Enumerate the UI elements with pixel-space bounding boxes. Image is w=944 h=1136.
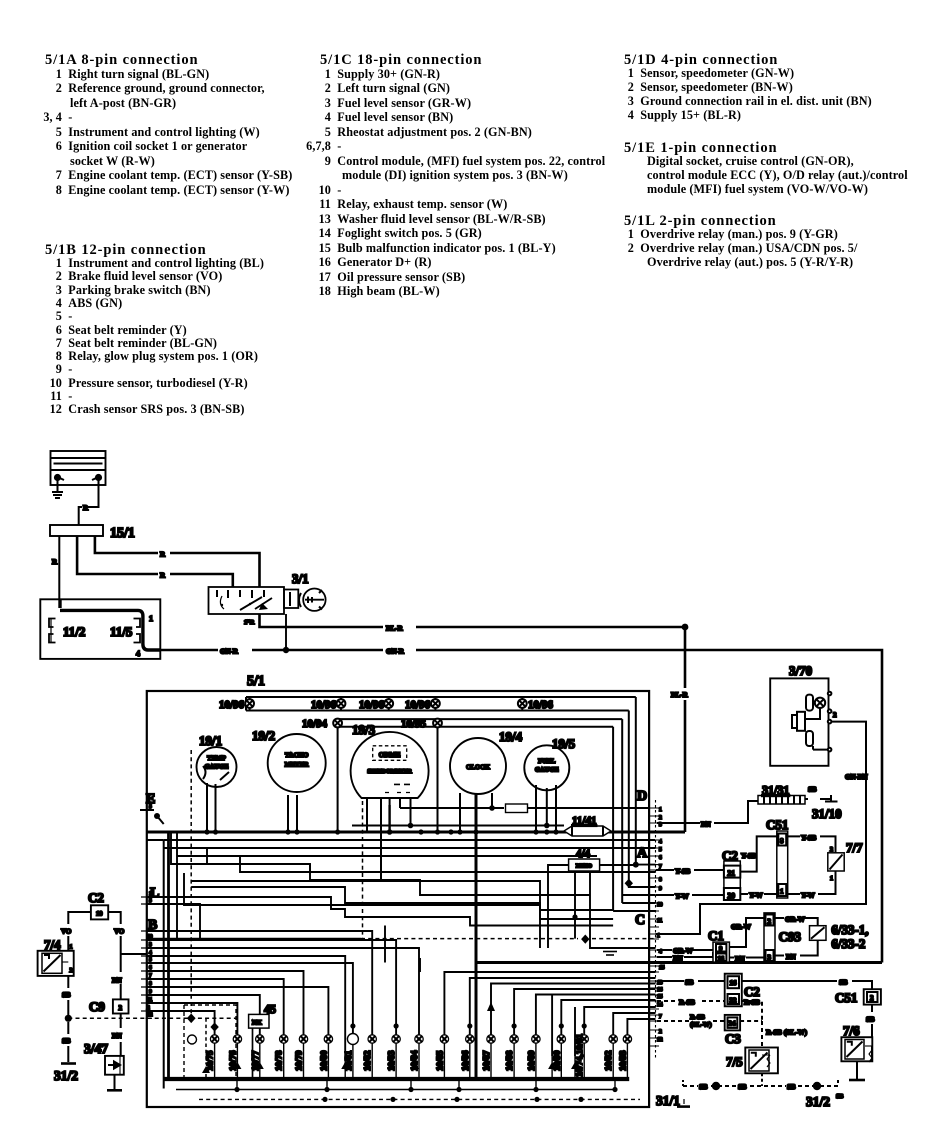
svg-text:2: 2 (70, 968, 73, 974)
junction dot rheo (572, 914, 577, 919)
svg-text:GN-R: GN-R (386, 648, 405, 656)
small dial symbol (188, 1035, 197, 1044)
svg-text:FUEL: FUEL (538, 758, 556, 765)
wire 7/6 ground (857, 1046, 872, 1080)
svg-text:BN: BN (701, 821, 711, 829)
svg-text:C51: C51 (835, 990, 857, 1005)
pin stubs left edge (141, 810, 152, 1018)
svg-text:16: 16 (657, 987, 663, 993)
lamp rail 10/94 10/95 (338, 719, 623, 727)
svg-text:8: 8 (659, 877, 662, 883)
battery 6/1 (51, 451, 106, 485)
wire VO right (108, 912, 147, 999)
svg-text:SB: SB (62, 1037, 71, 1045)
svg-text:NK: NK (252, 1020, 262, 1027)
solenoid 6/33 (810, 926, 827, 941)
svg-text:8: 8 (780, 837, 784, 845)
svg-text:10/93: 10/93 (617, 1050, 627, 1071)
wire Y-SB C51 to 7/7 (788, 836, 836, 852)
svg-text:SB: SB (839, 979, 848, 987)
svg-text:10/92: 10/92 (603, 1050, 613, 1071)
svg-text:C: C (635, 913, 645, 928)
svg-text:BL-R: BL-R (671, 691, 689, 699)
connector C3 pin 24 (725, 1015, 740, 1031)
svg-text:12: 12 (657, 1037, 663, 1043)
svg-text:10/78: 10/78 (274, 1050, 284, 1071)
svg-text:Y-SB: Y-SB (741, 852, 757, 860)
svg-text:SB: SB (808, 786, 817, 794)
svg-text:10: 10 (96, 911, 103, 918)
pin column right edge (650, 800, 659, 1058)
dashed R-SB to 7/5 (740, 1001, 762, 1048)
svg-text:3/70: 3/70 (789, 663, 812, 678)
svg-text:C2: C2 (744, 984, 760, 999)
svg-text:1: 1 (657, 933, 660, 939)
wire BN to C1 (657, 952, 713, 957)
svg-text:7/5: 7/5 (726, 1054, 743, 1069)
svg-text:SB: SB (866, 1016, 875, 1024)
svg-text:BN: BN (786, 953, 796, 961)
svg-text:10/87: 10/87 (481, 1050, 491, 1071)
svg-text:5: 5 (659, 847, 662, 853)
ground bottom left (107, 1089, 122, 1092)
wire GR-W to C1 (657, 949, 713, 951)
NK stub (252, 1028, 254, 1079)
dashed wire mid (147, 938, 361, 940)
dashed SB ground line (683, 1080, 838, 1086)
wires mesh middle band (147, 832, 656, 1079)
wire BN C1 to C93 (729, 957, 764, 959)
diamond above lamp 10/75 (210, 1022, 218, 1031)
svg-text:2: 2 (119, 1004, 123, 1012)
svg-text:R-SB: R-SB (679, 999, 695, 1007)
svg-text:ODME: ODME (379, 751, 401, 759)
svg-text:R: R (160, 551, 166, 559)
svg-text:4: 4 (659, 949, 662, 955)
svg-text:VO: VO (114, 928, 125, 936)
svg-text:1: 1 (780, 888, 784, 896)
svg-text:10/89: 10/89 (526, 1050, 536, 1071)
ground at battery (52, 480, 63, 498)
svg-text:(BL-W): (BL-W) (690, 1022, 712, 1029)
svg-text:C51: C51 (766, 817, 788, 832)
svg-text:R-SB: R-SB (744, 999, 760, 1007)
main bus BN thick (147, 831, 685, 834)
svg-text:C1: C1 (708, 928, 724, 943)
overdrive relay 7/7 (828, 853, 844, 871)
wire SB to C51 (742, 981, 872, 989)
svg-text:6/33-2: 6/33-2 (831, 936, 865, 951)
diag socket NK (249, 1014, 269, 1028)
svg-text:TEMP: TEMP (207, 755, 226, 762)
ground 7/6 (849, 1079, 865, 1082)
svg-text:10/95: 10/95 (401, 718, 427, 730)
svg-text:Y-W: Y-W (801, 892, 815, 900)
wire Y-SB C2 to C51 (740, 836, 777, 871)
svg-text:3: 3 (768, 954, 772, 962)
svg-text:4: 4 (659, 839, 662, 845)
hazard switch 3/70 (770, 678, 831, 765)
wire BL-R down to bus (684, 627, 687, 832)
bottom lamp row (210, 1034, 631, 1045)
brake warning sensor 7/5 (745, 1048, 778, 1074)
svg-text:3: 3 (659, 822, 662, 828)
dashed R-SB from pins (657, 1000, 725, 1002)
svg-text:10/79: 10/79 (294, 1050, 304, 1071)
svg-text:15: 15 (659, 965, 665, 971)
svg-text:7: 7 (659, 1014, 662, 1020)
svg-text:19/4: 19/4 (499, 729, 523, 744)
svg-text:R: R (52, 558, 58, 566)
svg-text:METER: METER (285, 762, 309, 769)
svg-text:10/82: 10/82 (362, 1050, 372, 1071)
svg-text:Y-W: Y-W (749, 892, 763, 900)
svg-text:20: 20 (728, 891, 736, 900)
lamp labels rotated (205, 1033, 628, 1077)
srs lamp arrow (487, 1002, 495, 1011)
wire Y-W C2 to C51 (740, 893, 777, 895)
wire R 15/1 to switch pin b (95, 536, 260, 587)
wire R 15/1 to switch pin a (77, 536, 233, 587)
svg-text:31/10: 31/10 (812, 806, 842, 821)
svg-text:10/96: 10/96 (311, 699, 337, 711)
svg-text:TACHO: TACHO (285, 752, 308, 759)
junction dots above lamps (350, 1023, 587, 1028)
ground 31/1 (677, 1105, 690, 1108)
connector box 11/2 11/5 (40, 599, 160, 659)
svg-text:10/80: 10/80 (318, 1050, 328, 1071)
svg-text:10/88: 10/88 (504, 1050, 514, 1071)
bus second conductor (164, 840, 655, 1089)
dashed return line (199, 1098, 640, 1100)
diamond junction A (625, 879, 633, 888)
svg-text:SB: SB (738, 1083, 747, 1091)
pin E (140, 810, 164, 824)
svg-text:R-SB (BL-W): R-SB (BL-W) (766, 1029, 808, 1037)
legend column 1 (45, 52, 198, 69)
svg-text:1: 1 (70, 945, 73, 951)
svg-text:31/1: 31/1 (656, 1093, 680, 1108)
svg-text:31/2: 31/2 (806, 1094, 830, 1109)
svg-text:SB: SB (685, 979, 694, 987)
svg-text:GN-R: GN-R (220, 648, 239, 656)
svg-text:7/4: 7/4 (44, 937, 61, 952)
svg-text:1: 1 (659, 807, 662, 813)
component 11/41 (564, 826, 611, 836)
svg-text:7/6: 7/6 (843, 1023, 860, 1038)
connector C93 (764, 913, 775, 962)
svg-text:10/96: 10/96 (219, 699, 245, 711)
diodes lamps 2 3 (233, 1062, 241, 1069)
svg-text:10/94: 10/94 (302, 718, 328, 730)
wire R battery to 15/1 (79, 480, 99, 525)
connector C2 pins 16 32 (725, 974, 742, 1007)
svg-text:R: R (160, 572, 166, 580)
rheostat 4/4 (569, 859, 600, 871)
junction dots on bus (204, 805, 558, 835)
pin numbers left (147, 804, 153, 1018)
svg-text:2: 2 (659, 815, 662, 821)
wire VO left (68, 912, 91, 951)
connector C51 (777, 831, 788, 898)
lamp 10/95 (433, 719, 442, 728)
ground 31/10 (825, 795, 838, 802)
svg-text:3/1: 3/1 (292, 571, 309, 586)
svg-text:5/1: 5/1 (247, 674, 265, 689)
svg-text:24: 24 (729, 1020, 737, 1028)
gauge pin wires (207, 728, 564, 881)
legend column 3 (624, 52, 778, 69)
bulb rail top (246, 697, 636, 711)
svg-text:11/2: 11/2 (63, 624, 85, 639)
svg-text:C93: C93 (779, 929, 802, 944)
svg-text:7: 7 (659, 864, 662, 870)
svg-text:VO: VO (61, 928, 72, 936)
wire SB to ground (67, 976, 69, 1062)
svg-text:GR-W: GR-W (785, 916, 805, 924)
svg-text:GAUGE: GAUGE (205, 764, 229, 771)
key symbol (299, 589, 326, 611)
ground connector 3/47 (105, 1056, 124, 1075)
connector C2 pins 21 20 (724, 861, 740, 900)
svg-text:CLOCK: CLOCK (466, 764, 490, 771)
svg-text:SPEEDOMETER: SPEEDOMETER (367, 769, 412, 775)
svg-text:Y-W: Y-W (675, 893, 689, 901)
labels 10/96 (219, 699, 554, 711)
thick supply horizontal (476, 961, 882, 964)
lamps 10/96 (245, 697, 526, 710)
wire SB to 31/10 (805, 799, 831, 801)
svg-text:1: 1 (149, 614, 153, 623)
svg-text:32: 32 (730, 997, 738, 1005)
wire Y-W C51 to 7/7 (788, 871, 836, 894)
wire to ground (114, 1075, 116, 1091)
svg-text:10/96: 10/96 (405, 699, 431, 711)
fuse box 15/1 (50, 525, 103, 536)
wire Y-SB to C2 (656, 869, 724, 871)
svg-text:11/41: 11/41 (572, 815, 596, 827)
pin numbers right (657, 807, 665, 1043)
svg-text:3/47: 3/47 (84, 1041, 108, 1056)
svg-text:GAUGE: GAUGE (535, 767, 559, 774)
svg-text:12: 12 (147, 1012, 153, 1018)
svg-text:2: 2 (870, 994, 874, 1002)
svg-text:31/2: 31/2 (54, 1068, 78, 1083)
svg-text:19/3: 19/3 (352, 722, 376, 737)
wire Y-W to C2 (656, 894, 724, 896)
dashed link wire (68, 1017, 241, 1019)
svg-text:21: 21 (728, 869, 736, 878)
nested corner wires top right (613, 697, 636, 911)
svg-text:31/31: 31/31 (762, 783, 789, 797)
legend column 2 (320, 52, 482, 69)
svg-text:19/1: 19/1 (199, 733, 222, 748)
speedometer 19/3 (351, 732, 429, 805)
wire BN to 3/47 (120, 1014, 122, 1056)
wire GN-R to right edge (160, 614, 882, 963)
svg-text:5: 5 (149, 804, 152, 810)
svg-text:SB: SB (699, 1083, 708, 1091)
thick supply wire from clock (475, 794, 478, 1079)
junction dot A (633, 862, 639, 868)
clock 19/4 (450, 738, 506, 794)
svg-text:10/86: 10/86 (460, 1050, 470, 1071)
svg-text:19/2: 19/2 (252, 728, 275, 743)
dashed srs wire with diode (205, 1018, 207, 1079)
diamond junction (187, 1014, 196, 1024)
svg-text:15: 15 (657, 994, 663, 1000)
relay 7/4 (38, 951, 74, 976)
wire BN C93 to solenoid (775, 940, 818, 955)
temp gauge 19/1 (197, 747, 237, 787)
svg-text:2: 2 (768, 918, 772, 926)
svg-text:GN-BN: GN-BN (845, 773, 868, 781)
wire with inline fuse to D (400, 804, 649, 813)
diodes (341, 1062, 579, 1069)
wire BN to ground rail (657, 801, 758, 823)
wire GR-W C93 to solenoid (775, 918, 818, 926)
svg-text:19/5: 19/5 (552, 736, 576, 751)
svg-text:Y-SB: Y-SB (801, 834, 817, 842)
wire GN-BN (656, 722, 867, 934)
svg-text:16: 16 (730, 979, 738, 987)
dots on return line (234, 1087, 617, 1092)
connector C9 pin 2 (113, 999, 129, 1013)
svg-text:2: 2 (833, 711, 837, 719)
svg-text:RHEO: RHEO (576, 864, 593, 870)
ignition switch 3/1 (209, 587, 299, 614)
svg-text:C9: C9 (89, 999, 105, 1014)
svg-text:11: 11 (657, 918, 662, 924)
svg-text:10: 10 (657, 902, 663, 908)
svg-text:Y-SB: Y-SB (675, 868, 691, 876)
illumination symbol (600, 949, 620, 956)
svg-text:14: 14 (657, 1002, 663, 1008)
svg-text:SB: SB (836, 1094, 843, 1100)
svg-text:C2: C2 (722, 848, 738, 863)
srs warning dashed box (184, 1005, 236, 1079)
wire GR-W C1 to C93 (729, 918, 764, 947)
svg-text:BN: BN (112, 977, 122, 985)
svg-text:9: 9 (659, 886, 662, 892)
ground rail 31/31 (758, 796, 805, 805)
lamp 10/94 (333, 719, 342, 728)
wire 7/5 to SB dashed (761, 1073, 763, 1086)
svg-text:10/96: 10/96 (359, 699, 385, 711)
svg-text:6/33-1,: 6/33-1, (831, 922, 868, 937)
svg-text:GR-W: GR-W (731, 923, 751, 931)
svg-text:10/85: 10/85 (434, 1050, 444, 1071)
svg-text:SB: SB (787, 1083, 796, 1091)
svg-text:1*R: 1*R (244, 620, 255, 626)
svg-text:C3: C3 (725, 1031, 741, 1046)
svg-text:R-SB: R-SB (690, 1014, 705, 1021)
svg-text:7/7: 7/7 (846, 840, 863, 855)
svg-text:C2: C2 (88, 890, 104, 905)
dots on dashed line (322, 1097, 583, 1102)
connector C1 pins 9 16 (713, 942, 729, 962)
wire BL-R switch to junction (260, 614, 689, 630)
wire SB to C2 (657, 980, 725, 982)
combination instrument box 5/1 (147, 691, 649, 1107)
svg-text:BN: BN (112, 1032, 122, 1040)
dashed wire speedometer (362, 801, 364, 939)
svg-text:4: 4 (136, 649, 140, 658)
diamond junction (581, 935, 589, 944)
svg-text:SB: SB (62, 991, 71, 999)
connector C2 pin 10 (91, 905, 108, 919)
bottom right section (657, 974, 881, 1107)
connector C51 pin 2 (864, 989, 881, 1004)
svg-text:BL-R: BL-R (386, 625, 404, 633)
wire R 15/1 to 11/2 (58, 536, 60, 599)
svg-text:2: 2 (830, 847, 833, 853)
svg-text:6: 6 (659, 855, 662, 861)
tacho meter 19/2 (268, 734, 326, 792)
temp warning sensor 7/6 (841, 1037, 872, 1061)
wire SB to 7/6 (871, 1005, 873, 1038)
inner dashed box (190, 750, 192, 1018)
svg-text:2: 2 (659, 1029, 662, 1035)
svg-text:15/1: 15/1 (110, 526, 135, 541)
thick lamp bus (164, 1077, 630, 1081)
lamp drop wires to bus (215, 1043, 628, 1079)
svg-text:D: D (637, 789, 647, 804)
ground 31/2 left (61, 1062, 76, 1065)
svg-text:BN: BN (673, 955, 683, 963)
svg-text:10/96: 10/96 (528, 699, 554, 711)
svg-text:11/5: 11/5 (110, 624, 133, 639)
svg-text:16: 16 (718, 956, 725, 963)
svg-text:1: 1 (830, 876, 833, 882)
svg-text:BN: BN (735, 955, 745, 963)
lower return line (176, 1079, 617, 1090)
svg-text:4/4: 4/4 (576, 848, 591, 860)
fuel gauge 19/5 (524, 745, 569, 790)
